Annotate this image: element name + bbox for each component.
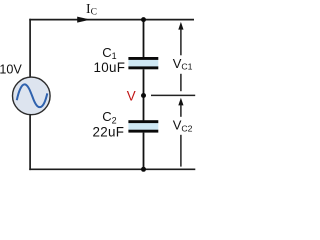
wire: capacitor branch top stub	[143, 20, 145, 58]
Vc2 arrow stem upper	[180, 104, 182, 116]
wire: bottom horizontal	[29, 168, 195, 170]
top junction dot	[141, 17, 146, 22]
svg-text:V: V	[127, 89, 136, 104]
Vc2 arrow head (up)	[178, 98, 183, 106]
svg-text:22uF: 22uF	[93, 124, 125, 139]
Vc2 arrow stem lower	[180, 135, 182, 167]
Vc1 arrow head (up)	[178, 22, 183, 30]
svg-text:VC1: VC1	[173, 56, 193, 72]
Vc1 arrow stem upper	[180, 29, 182, 56]
capacitor C1	[128, 57, 158, 69]
svg-text:C2: C2	[102, 109, 116, 126]
bottom junction dot	[141, 167, 146, 172]
svg-text:IC: IC	[86, 1, 97, 18]
current arrow Ic head	[77, 17, 90, 23]
wire: left vertical lower (source bottom to bottom wire)	[29, 115, 31, 171]
wire: left vertical upper (source top to top wire)	[29, 19, 31, 77]
voltage source V1 circle	[13, 77, 51, 115]
capacitor C2	[128, 120, 158, 132]
Vc1 arrow stem lower	[180, 74, 182, 91]
mid reference tick (node V level)	[151, 94, 195, 96]
svg-text:10uF: 10uF	[94, 60, 126, 75]
sine wave inside source	[17, 84, 48, 107]
wire: top horizontal from source to right edge	[29, 19, 194, 21]
wire: capacitor branch bottom stub	[143, 133, 145, 170]
svg-text:C1: C1	[102, 45, 116, 61]
wire: capacitor branch middle stub	[143, 69, 145, 120]
svg-text:VC2: VC2	[173, 118, 193, 134]
node V junction dot	[141, 93, 146, 98]
svg-text:10V: 10V	[0, 62, 22, 76]
